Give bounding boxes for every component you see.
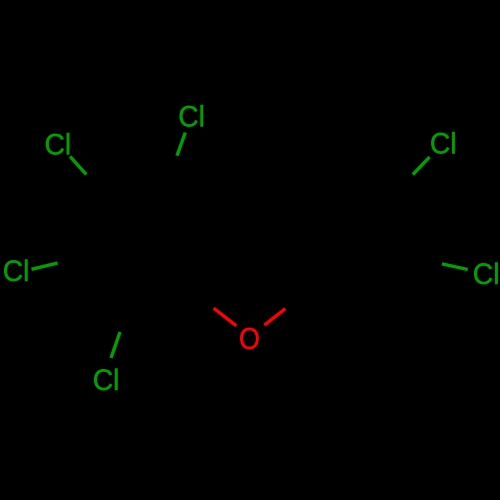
svg-text:Cl: Cl (430, 127, 457, 160)
wire C-O stub (right of O) (264, 309, 285, 326)
svg-text:Cl: Cl (93, 364, 120, 397)
wire C-Cl stub (upper-right Cl) (413, 157, 430, 175)
svg-text:Cl: Cl (473, 258, 500, 291)
svg-text:Cl: Cl (45, 129, 72, 162)
wire C-O stub (left of O) (214, 308, 237, 326)
wire C-Cl stub (top Cl) (177, 133, 185, 156)
wire C-Cl stub (lower-left Cl) (111, 332, 120, 358)
svg-text:Cl: Cl (3, 255, 30, 288)
wire C-Cl stub (upper-left Cl) (70, 157, 86, 175)
svg-text:O: O (239, 321, 260, 356)
svg-text:Cl: Cl (178, 101, 205, 134)
wire C-Cl stub (right Cl) (442, 264, 468, 270)
wire C-Cl stub (left Cl) (32, 263, 58, 269)
